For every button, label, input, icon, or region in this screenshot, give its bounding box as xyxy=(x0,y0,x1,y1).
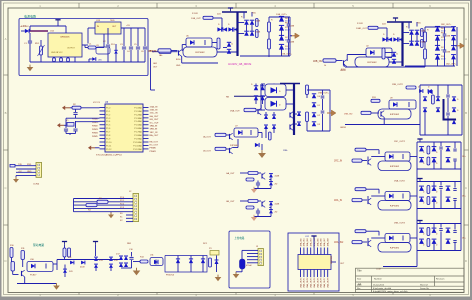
wire U2 out rail xyxy=(121,27,145,29)
svg-text:LED: LED xyxy=(98,60,102,62)
transistor GA_OUT xyxy=(261,173,263,178)
right caps GB1_OUT xyxy=(288,17,290,24)
zener ZD1 xyxy=(114,50,117,53)
wire U1 out xyxy=(82,44,88,46)
svg-text:1RA_OUT2: 1RA_OUT2 xyxy=(306,277,309,288)
svg-text:GA_OUT: GA_OUT xyxy=(150,115,160,118)
bar pills GB1_OUT xyxy=(256,19,259,27)
svg-text:1RC_IN: 1RC_IN xyxy=(334,161,343,163)
wire D1 to U1 (thick) xyxy=(30,30,49,32)
svg-text:RXD: RXD xyxy=(27,164,32,166)
thick top rail 1RB_OUT xyxy=(387,21,412,23)
diode D13 xyxy=(94,257,98,261)
regulator U1 xyxy=(48,33,82,57)
svg-text:13-Jul-2015: 13-Jul-2015 xyxy=(373,284,385,286)
ground power input xyxy=(29,65,31,67)
svg-text:1RA_IN6: 1RA_IN6 xyxy=(320,237,323,246)
svg-text:P1.11: P1.11 xyxy=(106,145,112,147)
igbt 1RA_IN xyxy=(378,201,411,211)
connector J3 xyxy=(258,249,263,266)
thick rail cluster2 xyxy=(280,83,300,85)
diode D19a xyxy=(124,256,128,260)
transistor 1RA_IN2 xyxy=(367,241,369,246)
diode D14 xyxy=(94,264,98,268)
diode D12 xyxy=(81,261,85,265)
svg-text:PWM2: PWM2 xyxy=(92,125,98,127)
transistor GB_OUT xyxy=(261,201,263,206)
capacitor GA_OUT xyxy=(257,181,259,183)
svg-text:GB_OUT: GB_OUT xyxy=(226,201,235,203)
resistor R30 xyxy=(361,111,371,114)
wires J3 xyxy=(247,249,258,251)
svg-text:GND: GND xyxy=(27,171,32,173)
port mcu bottom xyxy=(88,146,91,151)
svg-text:GA_OUT: GA_OUT xyxy=(226,172,235,175)
svg-text:A: A xyxy=(465,37,467,41)
transistor Q20 xyxy=(257,109,259,114)
ground cluster2 xyxy=(261,150,263,153)
resistor R3 xyxy=(97,200,108,203)
boxed diode D26 xyxy=(265,98,286,111)
svg-text:CBB: CBB xyxy=(446,52,451,54)
svg-text:Number: Number xyxy=(374,277,382,280)
inductor L1 xyxy=(88,46,96,49)
svg-text:RJP30E2: RJP30E2 xyxy=(230,145,239,147)
power flag 1RC_IN xyxy=(417,138,422,140)
svg-text:1RA_IN0: 1RA_IN0 xyxy=(299,237,302,246)
wires J2 bus xyxy=(74,198,134,200)
svg-text:1k: 1k xyxy=(324,65,326,67)
svg-text:B: B xyxy=(5,111,7,115)
svg-text:P1.10/AD: P1.10/AD xyxy=(133,141,142,144)
svg-text:ZD: ZD xyxy=(275,212,278,214)
opto U10 xyxy=(27,262,53,272)
svg-text:1GB_IN: 1GB_IN xyxy=(150,110,158,112)
svg-text:1GB_OUT: 1GB_OUT xyxy=(191,18,201,20)
svg-text:P1.7/AD: P1.7/AD xyxy=(134,131,142,134)
svg-text:1RA_IN5: 1RA_IN5 xyxy=(316,237,319,246)
svg-text:1RA_OUT1: 1RA_OUT1 xyxy=(303,277,306,288)
igbt GB1_OUT xyxy=(183,47,217,57)
svg-text:Revision: Revision xyxy=(436,278,445,280)
plug X1 xyxy=(10,164,15,167)
svg-text:1GA_IN: 1GA_IN xyxy=(150,105,158,108)
wires J1 xyxy=(16,165,36,167)
right caps 1RB_OUT xyxy=(444,27,446,34)
pull-up section box xyxy=(229,231,270,288)
transistor Q30 xyxy=(380,111,382,116)
right sec vertical GB1_OUT xyxy=(268,17,270,57)
transistor 1RA_IN xyxy=(367,199,369,204)
ch2 left diode xyxy=(428,90,432,94)
ground chain1 xyxy=(56,283,58,285)
svg-text:TXD: TXD xyxy=(18,164,23,166)
wire box chain xyxy=(165,256,207,273)
bar diodes 1RB_OUT xyxy=(409,30,414,35)
svg-text:1RC_OUT2: 1RC_OUT2 xyxy=(394,141,406,143)
capacitor C6 xyxy=(144,28,146,46)
svg-text:ZD: ZD xyxy=(275,184,278,186)
wire AC input xyxy=(21,30,25,32)
svg-text:CR6842S: CR6842S xyxy=(60,37,70,39)
svg-text:1RA_IN1: 1RA_IN1 xyxy=(303,237,306,246)
svg-text:VCC P4: VCC P4 xyxy=(93,102,100,104)
svg-text:1B_OUT: 1B_OUT xyxy=(203,151,212,153)
svg-text:P1.2/AD: P1.2/AD xyxy=(134,113,142,116)
ch2 block xyxy=(419,85,421,135)
resistor GB_OUT 2 xyxy=(246,206,254,209)
power flag 1RB_OUT xyxy=(393,17,398,19)
cluster2 mid diodes xyxy=(297,112,301,116)
igbt 1RB_OUT xyxy=(355,57,389,67)
ch2 diode grid xyxy=(423,97,427,101)
svg-text:CBB: CBB xyxy=(446,36,451,38)
svg-text:P1.1/AD: P1.1/AD xyxy=(134,110,142,113)
svg-text:1RA_IN2: 1RA_IN2 xyxy=(306,237,309,246)
svg-text:P1.5/AD: P1.5/AD xyxy=(134,124,142,127)
diode D1 xyxy=(25,29,29,33)
regulator U2 xyxy=(95,22,121,34)
svg-text:+5V: +5V xyxy=(126,25,130,27)
diode D21 xyxy=(201,259,205,263)
resistor 1RC_IN xyxy=(352,159,362,162)
svg-text:上拉电路: 上拉电路 xyxy=(234,236,245,240)
svg-text:PWM0: PWM0 xyxy=(92,119,98,121)
svg-text:P1.3/AD: P1.3/AD xyxy=(134,117,142,120)
diode D19b xyxy=(124,263,128,267)
ch2 bottom wire xyxy=(345,124,420,126)
right pills 1RB_OUT xyxy=(424,32,427,42)
resistor top 1RB_OUT xyxy=(368,26,378,29)
bar pills 1RB_OUT xyxy=(421,29,424,37)
diode D20 xyxy=(189,259,193,263)
resistor GB1_OUT series xyxy=(158,49,171,52)
wire RB in thick xyxy=(234,95,265,97)
svg-text:RJP30E2: RJP30E2 xyxy=(195,52,205,54)
power flag 1RA_IN xyxy=(417,178,422,180)
svg-text:1RA_OUT2: 1RA_OUT2 xyxy=(394,180,406,183)
svg-text:1RA_OUT: 1RA_OUT xyxy=(230,110,240,113)
diode D18 xyxy=(119,263,123,267)
cluster2 right diode col xyxy=(306,95,308,99)
power flag dip xyxy=(311,235,316,237)
svg-text:File:: File: xyxy=(357,288,361,290)
svg-text:1RA_OUT8: 1RA_OUT8 xyxy=(327,277,330,288)
gate res pill 1RB_OUT xyxy=(382,48,385,59)
svg-text:P1.11/AD: P1.11/AD xyxy=(133,144,142,147)
wire R1 to Q1 xyxy=(152,51,159,53)
wire rail2 xyxy=(57,259,120,261)
wire J2 lower stubs xyxy=(126,214,133,216)
diode cluster2 out xyxy=(255,143,259,147)
resistor R15 xyxy=(209,258,212,267)
ground chain3 xyxy=(217,275,219,277)
ground J2 xyxy=(110,212,112,213)
optocoupler 1RA_IN xyxy=(385,192,410,201)
svg-text:STC12C5A60S2_LQFP44: STC12C5A60S2_LQFP44 xyxy=(96,154,122,157)
svg-text:PWM1: PWM1 xyxy=(92,122,98,124)
port crystal gnd xyxy=(57,123,60,128)
right diode col GB1_OUT xyxy=(279,16,284,21)
wire opto out xyxy=(53,263,57,265)
diode D19 xyxy=(176,259,180,263)
diode pair GA_OUT xyxy=(269,174,273,178)
optocoupler 1RC_IN xyxy=(385,152,410,161)
resistor top 1RC_IN xyxy=(355,148,366,151)
svg-text:1RB_OUT2: 1RB_OUT2 xyxy=(392,84,404,86)
optocoupler U2 xyxy=(366,48,392,57)
svg-text:RJP30E2: RJP30E2 xyxy=(390,114,400,116)
resistor R11 xyxy=(21,251,24,260)
svg-text:CON4: CON4 xyxy=(33,184,40,186)
svg-text:1GB_OUT+: 1GB_OUT+ xyxy=(276,14,288,16)
igbt 1RA_IN2 xyxy=(378,243,411,253)
svg-text:R 10R: R 10R xyxy=(357,23,363,25)
optocoupler U9 xyxy=(389,100,416,109)
svg-text:1RA_OUT6: 1RA_OUT6 xyxy=(320,277,323,288)
driver ic section box xyxy=(288,233,339,291)
right sec vertical 1RB_OUT xyxy=(424,27,426,67)
resistor GA_OUT 2 xyxy=(246,178,254,181)
igbt 1RC_IN xyxy=(378,161,411,171)
svg-text:CBB: CBB xyxy=(290,26,295,28)
svg-text:R 10R: R 10R xyxy=(192,13,198,15)
boxed diode D25 xyxy=(265,84,286,97)
svg-text:驱动电路: 驱动电路 xyxy=(33,243,44,247)
cluster2 driver transistors xyxy=(289,112,291,117)
svg-text:PC817: PC817 xyxy=(30,275,37,277)
thick bus bar GB1_OUT xyxy=(236,12,238,56)
svg-text:ULN2803: ULN2803 xyxy=(331,256,333,264)
resistor R31 xyxy=(371,99,380,102)
thick bus bar cluster2 xyxy=(293,84,295,136)
svg-text:P1.6/AD: P1.6/AD xyxy=(134,127,142,130)
svg-text:1RB_IN: 1RB_IN xyxy=(150,129,158,131)
bar diodes GB1_OUT xyxy=(244,20,249,25)
power flag 1RA_IN2 xyxy=(417,220,422,222)
resistor R12c xyxy=(11,262,14,272)
svg-text:CBB: CBB xyxy=(290,42,295,44)
transistor 1RB_OUT xyxy=(343,60,345,65)
bar second vertical GB1_OUT xyxy=(243,12,245,19)
wire bottom rail power box xyxy=(30,61,145,63)
svg-text:1GC_IN: 1GC_IN xyxy=(150,113,158,115)
pill Q2 xyxy=(269,132,272,140)
capacitor C1 xyxy=(29,33,31,41)
LED D2 xyxy=(92,57,96,61)
resistor GB_OUT xyxy=(248,200,258,203)
svg-text:GND8: GND8 xyxy=(340,70,346,72)
svg-text:1RA_OUT0: 1RA_OUT0 xyxy=(299,277,302,288)
svg-text:GND FB VCC: GND FB VCC xyxy=(51,52,63,54)
svg-text:E:\prj\AC220V_motor_driver_sch: E:\prj\AC220V_motor_driver_sch.Sch xyxy=(373,290,408,293)
svg-text:P1.10: P1.10 xyxy=(106,142,112,144)
svg-text:P1.12: P1.12 xyxy=(106,149,112,151)
resistor top GB1_OUT xyxy=(203,16,213,19)
wire to opto2 xyxy=(133,261,140,263)
dip right pin xyxy=(331,261,336,263)
svg-text:C: C xyxy=(465,186,467,190)
opto U11 xyxy=(150,258,163,266)
wire pwm feed xyxy=(150,58,152,90)
gate diodes 1RB_OUT xyxy=(382,37,386,41)
svg-text:B: B xyxy=(465,111,467,115)
svg-text:RJP30E2: RJP30E2 xyxy=(390,205,400,207)
ground cluster2 mid xyxy=(261,144,263,150)
right edge wire 1RB_OUT xyxy=(456,27,458,66)
svg-text:RA_OUT: RA_OUT xyxy=(150,134,160,137)
igbt ch2 xyxy=(378,109,411,119)
zone ticks top/bottom xyxy=(78,3,80,8)
diode grid Q2 lower xyxy=(264,115,268,119)
wire L1 to U2 xyxy=(96,47,104,49)
svg-text:PWM0: PWM0 xyxy=(150,148,157,150)
ch2 caps xyxy=(447,85,449,94)
gate res pill GB1_OUT xyxy=(217,38,220,49)
cluster2 box frame wires xyxy=(260,84,262,110)
ground chain2 xyxy=(121,267,132,269)
thick bus bar 1RB_OUT xyxy=(401,22,403,66)
zone ticks left/right xyxy=(4,74,9,76)
dip pins bottom xyxy=(300,270,302,278)
resistor 1RB_OUT series xyxy=(323,59,336,62)
port RST xyxy=(62,106,65,111)
ground GB_OUT xyxy=(253,215,255,217)
ch2 thick bars xyxy=(443,99,445,120)
cluster2 right pills xyxy=(306,85,309,95)
svg-text:RJP30E2: RJP30E2 xyxy=(390,247,400,249)
svg-text:AC220V_GB_DRIVE: AC220V_GB_DRIVE xyxy=(228,63,252,66)
svg-text:P1.4/AD: P1.4/AD xyxy=(134,120,142,123)
svg-text:1RA_OUT4: 1RA_OUT4 xyxy=(313,277,316,288)
lower diode pair 1RB_OUT xyxy=(392,52,396,56)
resistor R1 xyxy=(159,50,171,53)
capacitor C10 xyxy=(131,252,133,257)
ground GA_OUT xyxy=(253,187,255,189)
resistor R12 xyxy=(63,248,66,257)
svg-text:1RB_IN2: 1RB_IN2 xyxy=(344,114,353,116)
transistor Q10 xyxy=(21,271,23,276)
wires R10 R11 xyxy=(11,258,13,262)
resistor GA_OUT xyxy=(248,172,258,175)
cap CE1 xyxy=(240,259,246,269)
svg-text:RJP30E2: RJP30E2 xyxy=(390,166,400,168)
crystal Y1 xyxy=(67,123,74,127)
svg-text:RC_OUT: RC_OUT xyxy=(150,145,159,147)
svg-text:1RB_OUT3: 1RB_OUT3 xyxy=(394,223,406,225)
svg-text:PWM3: PWM3 xyxy=(92,129,98,131)
svg-text:PWM1: PWM1 xyxy=(150,151,157,153)
svg-text:A: A xyxy=(5,37,7,41)
capacitor C4 xyxy=(130,28,132,46)
mid1 emitter rail xyxy=(181,56,183,63)
resistor R14 xyxy=(140,260,148,263)
svg-text:电源电路: 电源电路 xyxy=(24,14,36,19)
resistor top 1RA_IN2 xyxy=(355,230,366,233)
svg-text:C: C xyxy=(4,186,6,190)
second diode col 1RB_OUT xyxy=(451,27,456,32)
port arrow cluster2 xyxy=(327,112,332,114)
capacitor C8 xyxy=(64,128,68,130)
connector J2 xyxy=(133,194,139,222)
svg-text:1RA_IN: 1RA_IN xyxy=(150,125,158,128)
svg-text:1RB-: 1RB- xyxy=(283,150,288,152)
svg-text:P1.9/AD: P1.9/AD xyxy=(134,137,142,140)
optocoupler 1RA_IN2 xyxy=(385,234,410,243)
svg-text:GND: GND xyxy=(176,65,181,67)
wire crystal to mcu xyxy=(65,118,67,121)
power flag GB1_OUT xyxy=(228,7,233,9)
svg-text:COM: COM xyxy=(376,269,381,271)
wire opto to diodes GB1_OUT xyxy=(212,42,219,44)
svg-text:RJP30E2: RJP30E2 xyxy=(367,62,377,64)
dip ic U12 xyxy=(298,255,331,270)
capacitor C7 xyxy=(75,109,77,112)
wire CE1 xyxy=(241,250,243,259)
svg-text:Date:: Date: xyxy=(357,283,362,286)
svg-text:1A_OUT: 1A_OUT xyxy=(203,136,212,139)
wire emitter xyxy=(24,277,26,284)
resistor ch2 top xyxy=(406,86,416,89)
right diode col 1RB_OUT xyxy=(435,26,440,31)
resistor 1RA series xyxy=(244,108,256,111)
svg-text:Title: Title xyxy=(357,270,362,273)
svg-text:D: D xyxy=(465,259,467,263)
wire opto2 out xyxy=(258,132,262,134)
port arrow 1RB_OUT xyxy=(456,45,461,47)
svg-text:Sheet of: Sheet of xyxy=(420,283,428,286)
svg-text:1RA_IN: 1RA_IN xyxy=(334,199,342,202)
cluster2 frame wires xyxy=(307,89,330,91)
svg-text:1RA_OUT7: 1RA_OUT7 xyxy=(323,277,326,288)
svg-text:GC_OUT: GC_OUT xyxy=(150,122,160,124)
bottom rail xyxy=(17,283,57,285)
gate diodes GB1_OUT xyxy=(217,27,221,31)
power flag VCC1 xyxy=(55,19,60,21)
diode D15 xyxy=(109,257,113,261)
svg-text:OUTPUT: OUTPUT xyxy=(67,48,76,50)
dip pins top xyxy=(300,248,302,255)
svg-text:1RA_OUT3: 1RA_OUT3 xyxy=(310,277,313,288)
svg-text:1RA_IN2: 1RA_IN2 xyxy=(334,241,344,244)
svg-text:D: D xyxy=(4,259,6,263)
wire top rail xyxy=(57,23,59,26)
capacitor C3 xyxy=(123,28,125,46)
connector J1 xyxy=(36,163,42,178)
ch1 bottom long wire xyxy=(345,66,425,68)
diode D11 xyxy=(70,261,74,265)
svg-text:1GB_OUT+: 1GB_OUT+ xyxy=(281,54,293,56)
resistor top 1RA_IN xyxy=(355,188,366,191)
capacitor C2 xyxy=(107,28,109,44)
U1 bottom pills xyxy=(53,58,56,62)
port arrow GB1_OUT xyxy=(291,35,296,37)
svg-text:1B2_OUT+: 1B2_OUT+ xyxy=(446,64,457,66)
thick top rail GB1_OUT xyxy=(222,11,247,13)
resistor 1RA_IN xyxy=(352,199,362,202)
svg-text:1k: 1k xyxy=(159,55,161,57)
diode grid upper left xyxy=(254,86,258,90)
power supply section box xyxy=(19,19,148,76)
wire blocks link left xyxy=(416,169,418,182)
right edge wire GB1_OUT xyxy=(289,17,291,56)
bar second vertical 1RB_OUT xyxy=(408,22,410,29)
diode block 1RA_IN xyxy=(416,182,418,209)
svg-text:1RC_IN: 1RC_IN xyxy=(150,132,158,134)
resistor 1RA_IN2 xyxy=(352,241,362,244)
optocoupler U6 xyxy=(186,38,212,47)
svg-text:1GB1_OUT: 1GB1_OUT xyxy=(356,28,368,30)
